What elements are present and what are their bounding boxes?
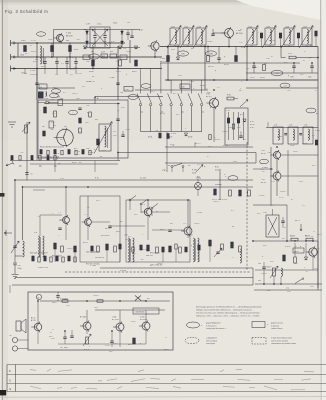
resistor R137 xyxy=(89,112,92,117)
svg-text:AF 200: AF 200 xyxy=(66,35,73,38)
table scribbles xyxy=(30,369,314,390)
svg-text:BF 94: BF 94 xyxy=(261,182,266,184)
band switch S1-5 xyxy=(178,84,184,132)
resistor R191 xyxy=(119,244,121,249)
svg-text:T 101: T 101 xyxy=(66,33,72,35)
svg-text:K: K xyxy=(9,369,11,373)
trimmer box 1 xyxy=(83,55,90,60)
wire xyxy=(246,72,318,74)
component row left xyxy=(32,256,76,262)
inductor L41 xyxy=(281,268,282,276)
resistor R168 xyxy=(169,246,172,252)
svg-text:MP 3: MP 3 xyxy=(295,220,299,222)
svg-text:C50: C50 xyxy=(18,265,21,267)
diode D104 xyxy=(176,57,179,60)
svg-text:1n: 1n xyxy=(172,145,174,147)
ratio ellipse xyxy=(228,176,238,181)
wire xyxy=(15,277,253,279)
svg-text:gegen Chassis: gegen Chassis xyxy=(271,323,283,325)
capacitor C161 xyxy=(262,262,265,276)
wire xyxy=(317,47,319,289)
wire xyxy=(37,331,39,344)
svg-text:22k25: 22k25 xyxy=(213,201,219,203)
jack J2 xyxy=(12,346,28,351)
svg-text:C14: C14 xyxy=(55,74,58,76)
resistor R131 xyxy=(44,107,47,113)
paper right edge line xyxy=(320,0,323,400)
resistor R173 xyxy=(239,246,242,252)
potentiometer P3 xyxy=(83,334,91,346)
svg-text:4k752: 4k752 xyxy=(314,248,320,250)
svg-text:C65 R66 1k: C65 R66 1k xyxy=(95,257,104,259)
svg-text:contre point de mesure c: contre point de mesure c xyxy=(206,327,226,330)
capacitor C172 xyxy=(70,330,73,338)
inductor L30 xyxy=(23,241,25,257)
svg-text:862: 862 xyxy=(91,51,94,53)
svg-text:1n: 1n xyxy=(163,169,165,171)
capacitor C140 xyxy=(284,134,287,135)
resistor R123 xyxy=(235,56,238,62)
wire xyxy=(218,47,220,56)
resistor R192 xyxy=(132,247,134,252)
label C31 xyxy=(308,77,311,79)
band switch S1-3 xyxy=(157,84,163,132)
label C50 xyxy=(18,265,22,270)
svg-text:P 4,7k: P 4,7k xyxy=(84,349,89,351)
band label ellipse 2 xyxy=(206,51,217,56)
svg-text:22k43: 22k43 xyxy=(222,131,228,133)
svg-text:Spannungen gemessen mit Röhren: Spannungen gemessen mit Röhrenvoltmeter … xyxy=(196,306,262,309)
svg-text:L 21: L 21 xyxy=(274,125,277,127)
svg-text:C11: C11 xyxy=(127,22,130,24)
wire xyxy=(36,69,38,161)
resistor R102 xyxy=(51,46,54,52)
svg-text:10029: 10029 xyxy=(67,248,73,250)
label R110 xyxy=(132,71,136,73)
svg-text:0,162: 0,162 xyxy=(315,130,321,132)
variable capacitor C150 xyxy=(214,248,222,257)
capacitor C117 xyxy=(35,83,38,85)
svg-text:L 40: L 40 xyxy=(263,212,266,214)
label C161 xyxy=(258,263,261,265)
resistor R103 xyxy=(69,46,72,52)
label L21 xyxy=(274,125,277,127)
svg-text:22k73: 22k73 xyxy=(72,93,78,95)
wire xyxy=(234,98,238,100)
svg-text:L 23: L 23 xyxy=(304,125,307,127)
component row under box xyxy=(11,156,56,161)
band switch S1-6 xyxy=(188,84,193,132)
label T113 xyxy=(31,318,36,323)
resistor R176 xyxy=(62,300,68,302)
label TR104 xyxy=(189,235,192,237)
resistor R128 xyxy=(315,31,317,36)
svg-text:T 2: T 2 xyxy=(84,214,87,216)
svg-text:Oh: Oh xyxy=(9,335,11,337)
resistor R193 xyxy=(140,245,142,250)
capacitor C133 xyxy=(121,131,124,137)
legend text 3 xyxy=(206,338,217,346)
label C102 xyxy=(20,55,24,57)
label L124 xyxy=(248,27,252,29)
resistor R138 xyxy=(97,139,100,145)
svg-text:1 000/BC300: 1 000/BC300 xyxy=(135,312,145,314)
svg-text:BL 3114: BL 3114 xyxy=(112,319,119,321)
wire xyxy=(198,250,200,262)
label AF row3 xyxy=(146,255,153,257)
test point arrow A xyxy=(94,97,96,105)
svg-text:87 0k: 87 0k xyxy=(250,124,254,126)
microphone M1 xyxy=(36,294,41,299)
wire xyxy=(56,69,58,75)
svg-text:R 52: R 52 xyxy=(215,167,219,169)
supply label ellipse xyxy=(271,70,283,75)
legend header text xyxy=(196,306,262,318)
test arrow C xyxy=(196,165,206,173)
svg-text:7,2k: 7,2k xyxy=(155,130,158,132)
svg-text:10070: 10070 xyxy=(157,263,163,265)
resistor R195 xyxy=(175,244,177,249)
variable inductor L126 xyxy=(281,26,295,49)
svg-text:T 102: T 102 xyxy=(160,58,166,60)
resistor R121 xyxy=(167,56,170,62)
resistor R196 xyxy=(185,247,187,252)
wire xyxy=(194,142,196,147)
dashed AGC line xyxy=(65,271,250,273)
wire xyxy=(170,80,172,84)
legend rect dashed xyxy=(252,338,266,345)
svg-text:22k60: 22k60 xyxy=(88,152,94,154)
capacitor C181 xyxy=(168,230,171,232)
capacitor C173 xyxy=(110,331,113,347)
table row label S xyxy=(9,387,11,391)
IF transformer L21 xyxy=(273,127,283,144)
capacitor C182 xyxy=(58,228,61,230)
wire ellipse label xyxy=(52,89,61,93)
label AF top 3 xyxy=(140,178,146,180)
wire xyxy=(66,69,68,75)
svg-text:KW: KW xyxy=(181,53,184,55)
wire xyxy=(86,30,88,48)
wire xyxy=(117,104,119,158)
svg-text:10052: 10052 xyxy=(259,195,265,197)
svg-text:T 1: T 1 xyxy=(58,212,61,214)
resistor R167 xyxy=(156,247,159,253)
wire xyxy=(59,42,61,44)
svg-text:22k76: 22k76 xyxy=(194,223,200,225)
svg-text:R 52: R 52 xyxy=(250,121,254,123)
svg-text:22k: 22k xyxy=(300,74,303,76)
diode D105 xyxy=(243,119,246,122)
wire xyxy=(75,69,77,75)
label mixer xyxy=(226,110,230,112)
title text Fig. 3 Schaltbild xyxy=(5,9,48,14)
transistor T114 xyxy=(80,321,91,332)
wire xyxy=(253,240,318,242)
wire xyxy=(87,225,89,240)
svg-text:4k740: 4k740 xyxy=(105,228,111,230)
svg-text:C55: C55 xyxy=(31,155,34,157)
paper top edge shading xyxy=(0,0,326,5)
switch S104 xyxy=(171,164,184,173)
capacitor C116 xyxy=(116,83,119,85)
antenna terminal A1 xyxy=(11,40,17,46)
IF label ellipse xyxy=(306,108,316,113)
diode D114 xyxy=(38,101,58,104)
svg-text:R68 C69: R68 C69 xyxy=(146,255,153,257)
capacitor C171 xyxy=(63,331,66,344)
label AF mid 1 xyxy=(86,252,99,254)
svg-text:R 85: R 85 xyxy=(227,95,231,97)
wire xyxy=(152,211,170,213)
svg-text:T 4: T 4 xyxy=(183,223,186,225)
label L123 xyxy=(197,27,201,29)
label T111 xyxy=(183,223,186,225)
wire xyxy=(219,169,221,200)
svg-text:in Synchronstellung stereo: in Synchronstellung stereo xyxy=(271,337,292,340)
label box top 2 xyxy=(60,98,63,100)
wire xyxy=(37,301,39,323)
wire xyxy=(147,200,149,208)
resistor R160 xyxy=(54,243,57,249)
svg-text:commutateur en position stereo: commutateur en position stereo xyxy=(271,342,296,345)
label jack xyxy=(9,335,11,337)
variable capacitor C56 xyxy=(11,240,19,256)
svg-text:4k740: 4k740 xyxy=(89,81,95,83)
label AF mid 3 xyxy=(150,253,160,255)
svg-text:L123: L123 xyxy=(197,27,201,29)
resistor R140 xyxy=(227,97,234,100)
svg-text:to ground: to ground xyxy=(271,324,279,327)
resistor R180 xyxy=(291,238,298,241)
wire xyxy=(24,69,26,75)
IF transformer L23 xyxy=(303,127,313,144)
label ellipse L103 xyxy=(50,93,59,97)
svg-text:BC 304: BC 304 xyxy=(80,317,86,319)
label T116 xyxy=(140,317,148,322)
svg-text:10021: 10021 xyxy=(93,295,99,297)
svg-text:L125: L125 xyxy=(266,27,270,29)
resistor R154 xyxy=(248,190,251,196)
wire xyxy=(228,38,230,47)
svg-text:1k6: 1k6 xyxy=(42,126,45,128)
label demod area 2 xyxy=(192,170,197,175)
svg-text:Fig. 3 Schaltbild m: Fig. 3 Schaltbild m xyxy=(5,9,48,14)
label TR105 xyxy=(263,212,266,214)
label bottom right xyxy=(286,288,289,290)
IF transformer L22 xyxy=(288,127,298,144)
svg-text:C17: C17 xyxy=(113,131,116,133)
label L125 xyxy=(266,27,270,29)
svg-text:22k77: 22k77 xyxy=(126,51,132,53)
svg-text:22k69: 22k69 xyxy=(213,106,219,108)
svg-text:1n: 1n xyxy=(159,96,161,98)
label L122 xyxy=(184,27,188,29)
label AF mid 4 xyxy=(150,265,162,267)
wire xyxy=(276,180,278,196)
label bank 1 xyxy=(148,137,152,139)
svg-text:C44: C44 xyxy=(258,263,261,265)
svg-text:L124: L124 xyxy=(248,27,252,29)
svg-text:C112: C112 xyxy=(113,23,117,25)
wire xyxy=(135,89,208,91)
capacitor C119 xyxy=(130,30,133,38)
wire xyxy=(87,196,89,219)
variable inductor L122 xyxy=(180,26,194,49)
boxed label driver xyxy=(133,308,159,314)
svg-text:R110: R110 xyxy=(132,71,136,73)
FM tuner box xyxy=(38,100,128,158)
wire xyxy=(298,38,300,47)
svg-text:C127: C127 xyxy=(250,77,255,79)
label L23 xyxy=(304,125,307,127)
wire xyxy=(287,150,289,196)
wire xyxy=(253,204,287,206)
resistor R166 xyxy=(147,245,150,251)
svg-text:L6: L6 xyxy=(40,87,42,89)
band label ellipse 1 xyxy=(178,51,189,56)
AF box outer top xyxy=(15,179,253,181)
label IF right xyxy=(316,113,318,115)
wire xyxy=(94,161,96,173)
paper right margin xyxy=(322,0,326,400)
wire xyxy=(213,108,215,142)
capacitor C101 xyxy=(43,57,46,69)
wire xyxy=(74,252,76,262)
label near bank xyxy=(120,92,123,94)
wire xyxy=(15,256,23,262)
transistor T101 xyxy=(54,33,64,43)
arrow left low xyxy=(4,230,12,236)
capacitor C160 xyxy=(281,217,284,227)
transistor T115 xyxy=(113,322,124,333)
wire xyxy=(246,87,318,89)
wire xyxy=(27,292,29,311)
wire xyxy=(317,241,319,290)
svg-text:C 95: C 95 xyxy=(60,178,64,180)
resistor R125 xyxy=(260,33,262,38)
svg-text:C36: C36 xyxy=(120,92,123,94)
transistor T111 xyxy=(181,226,192,237)
sub box 1 xyxy=(80,196,120,262)
wire xyxy=(281,175,318,177)
svg-text:L 31: L 31 xyxy=(34,232,37,234)
svg-text:BC77: BC77 xyxy=(91,252,97,254)
label trimmer xyxy=(139,30,143,32)
svg-text:4k740: 4k740 xyxy=(208,66,214,68)
resistor R139 xyxy=(57,97,63,106)
svg-text:0,193: 0,193 xyxy=(189,81,195,83)
registration mark bottom left xyxy=(0,390,6,395)
wire xyxy=(286,205,288,241)
wire xyxy=(106,250,108,262)
wire xyxy=(255,153,257,164)
switch contact S2c xyxy=(151,204,158,217)
capacitor C127 xyxy=(252,63,255,73)
label TR102 xyxy=(34,232,37,234)
wire xyxy=(255,269,318,271)
transistor T116 xyxy=(139,321,150,332)
resistor R177 xyxy=(97,300,103,302)
paper left edge line xyxy=(1,0,3,400)
jack J1 xyxy=(12,337,28,342)
wire xyxy=(13,42,125,44)
svg-text:to test point c: to test point c xyxy=(206,324,217,327)
label C127 xyxy=(250,77,255,79)
wire xyxy=(40,300,170,302)
wire xyxy=(117,46,119,100)
wire xyxy=(39,215,41,236)
diode D111 xyxy=(86,41,89,44)
variable capacitor C113 xyxy=(93,28,96,47)
svg-text:BC86: BC86 xyxy=(277,136,283,138)
svg-text:100p: 100p xyxy=(18,268,22,270)
svg-text:22k98: 22k98 xyxy=(302,143,308,145)
comp right edge xyxy=(315,140,317,145)
resistor R170 xyxy=(209,240,212,246)
wire xyxy=(280,47,282,58)
wire xyxy=(312,256,314,270)
label T114 xyxy=(80,317,86,319)
label AF row2 xyxy=(95,257,104,259)
svg-text:C113: C113 xyxy=(101,52,105,54)
switch contact S2a xyxy=(129,196,136,211)
variable inductor L127 xyxy=(299,26,313,49)
coil L103 xyxy=(38,91,47,98)
svg-text:without signal: without signal xyxy=(206,339,217,342)
transformer TR102 xyxy=(38,236,44,257)
svg-text:= abgeglichen: = abgeglichen xyxy=(206,338,217,340)
svg-text:BL300 B: BL300 B xyxy=(140,319,148,321)
resistor R127 xyxy=(297,33,299,38)
component row in box xyxy=(40,150,91,155)
svg-text:S1 a: S1 a xyxy=(128,344,132,346)
wire xyxy=(118,152,256,154)
wire xyxy=(17,43,19,57)
capacitor C30 xyxy=(292,63,295,73)
svg-text:1n: 1n xyxy=(72,57,74,59)
wire xyxy=(165,79,318,81)
label demod area 1 xyxy=(162,170,166,172)
capacitor C170 xyxy=(56,292,59,301)
wire xyxy=(65,187,67,217)
label top3 xyxy=(30,74,38,76)
label T110 xyxy=(142,204,145,206)
svg-text:2,240: 2,240 xyxy=(22,73,28,75)
label demod row xyxy=(212,199,227,201)
label bus right xyxy=(200,85,205,87)
svg-text:Toleranzen ± 15% — tolerances: Toleranzen ± 15% — tolerances ± 15% — to… xyxy=(196,315,259,318)
label R109 xyxy=(116,71,121,73)
svg-text:L126: L126 xyxy=(285,27,289,29)
svg-text:S 103: S 103 xyxy=(200,85,205,87)
transformer TR101 xyxy=(195,179,202,196)
wire xyxy=(22,187,24,240)
transistor T105 xyxy=(206,97,218,109)
label L121 xyxy=(171,27,175,29)
gang arrows xyxy=(92,29,108,46)
diode D112 xyxy=(121,31,124,34)
svg-text:C47 100μ: C47 100μ xyxy=(60,347,67,349)
supply ellipse 2 xyxy=(280,83,290,88)
label TR103 xyxy=(124,235,127,237)
resistor R143 xyxy=(237,118,239,123)
resistor R183 xyxy=(294,257,297,263)
svg-text:4k715: 4k715 xyxy=(195,143,201,145)
mixer label ellipse xyxy=(89,54,100,59)
table row label C xyxy=(9,379,12,383)
resistor R110 xyxy=(135,60,138,66)
